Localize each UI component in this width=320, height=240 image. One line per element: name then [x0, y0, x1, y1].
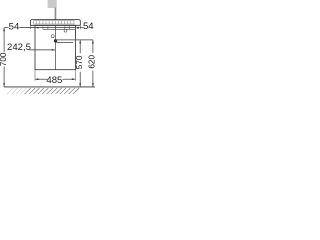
vanity cabinet — [35, 25, 75, 69]
jog vertical — [74, 29, 76, 40]
dim 485 line left — [35, 78, 48, 80]
drain dot — [54, 39, 57, 42]
dim 54 right dash — [80, 27, 83, 29]
dim 242,5 line — [30, 49, 56, 51]
knob circle left — [51, 35, 54, 38]
basin left extension tick — [29, 25, 31, 29]
faucet body (cropped at top, light gray) — [48, 0, 57, 8]
dim 700 arrow down — [3, 83, 5, 87]
washbasin outline — [30, 20, 80, 26]
svg-text:54: 54 — [9, 21, 20, 32]
basin inner rim top line — [33, 20, 74, 22]
svg-text:570: 570 — [75, 55, 84, 69]
dim 700 line upper — [3, 28, 5, 53]
basin inner ticks — [34, 21, 74, 24]
fixing ticks under basin — [43, 26, 70, 29]
svg-text:242,5: 242,5 — [7, 42, 31, 53]
knob circle right — [64, 29, 67, 32]
dim 485 extension left — [34, 70, 36, 81]
dim 54 left: corner segment — [4, 27, 8, 29]
pipe line lower — [56, 41, 74, 43]
dim 620 line upper — [92, 40, 94, 53]
center line — [54, 25, 56, 69]
svg-text:700: 700 — [0, 52, 8, 66]
dim 570 line lower — [79, 72, 81, 87]
dim 54 left arrowhead at cabinet side — [35, 27, 39, 29]
dim 485 line right — [62, 78, 75, 80]
dim 620 line lower — [92, 71, 94, 87]
floor hatching light left — [7, 88, 26, 94]
basin inner rim bottom line — [33, 23, 74, 25]
dim 242,5 arrowhead — [52, 49, 56, 51]
dim 700 arrow up — [3, 28, 5, 32]
svg-text:485: 485 — [46, 75, 62, 86]
pipe line upper — [56, 39, 93, 41]
floor line — [4, 86, 95, 88]
dim 700 line lower — [3, 67, 5, 87]
floor hatching — [25, 88, 80, 94]
dim 54 right arrowhead pointing left — [76, 27, 79, 29]
bracket line under basin — [43, 28, 76, 30]
svg-text:54: 54 — [83, 21, 94, 32]
dim 485 arrows — [35, 78, 39, 80]
dim 54 left line — [19, 27, 75, 29]
dim 570 line upper — [79, 40, 81, 53]
dim 54 right arrowhead pointing right — [77, 27, 80, 29]
basin right extension tick — [79, 25, 81, 29]
svg-text:620: 620 — [88, 55, 97, 69]
faucet stem — [55, 8, 57, 20]
dim 485 extension right — [74, 70, 76, 81]
